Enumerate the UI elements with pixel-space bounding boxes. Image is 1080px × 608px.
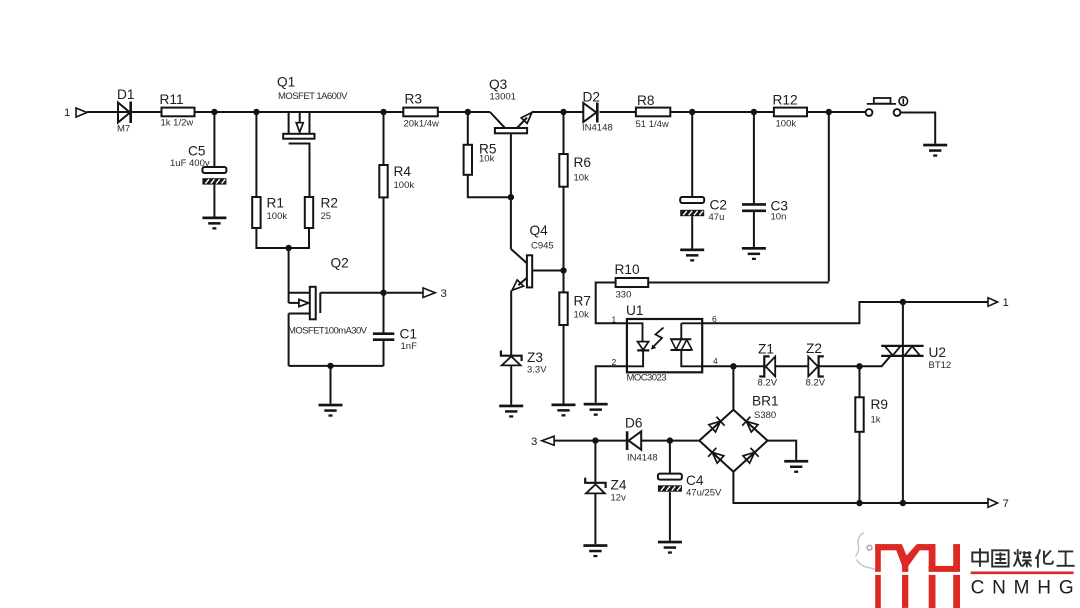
transistor Q4 [511,197,532,356]
logo chinese characters drawn [972,548,1074,567]
svg-text:Z2: Z2 [806,341,822,356]
zener Z2 [808,356,824,376]
svg-text:330: 330 [616,290,632,301]
svg-text:10k: 10k [479,154,495,165]
svg-text:IN4148: IN4148 [582,123,613,134]
svg-text:1k 1/2w: 1k 1/2w [161,118,194,129]
svg-text:C5: C5 [188,144,206,159]
node: bridge top junction on pin4 wire [730,363,736,369]
svg-text:25: 25 [321,211,332,222]
wire: U1 pin2 to ground [596,366,627,403]
logo white gap band [868,572,962,575]
port arrow 7 right [988,499,998,508]
U1 internal triac [671,323,703,366]
wire: R5 bottom to Q3 base node [468,175,511,197]
node: junction C3 [751,109,757,115]
wire: R9 bottom to bottom rail [859,432,861,503]
node: C4 junction [667,437,673,443]
diode D6 [627,431,641,450]
node: R1/R2 bottom junction to Q2 gate [285,245,291,251]
capacitor C2 [691,112,693,197]
svg-text:C2: C2 [710,198,728,213]
node: Q2 drain / C1 junction [380,290,386,296]
resistor R10 [616,278,649,287]
svg-text:Z3: Z3 [527,350,543,365]
svg-text:BT12: BT12 [929,360,952,371]
svg-text:S380: S380 [754,410,776,421]
wire: bridge top to pin4 node [732,366,734,409]
wire: Q2 source / C1 bottom rail [289,365,384,367]
zener Z3 [501,351,522,405]
node: junction R3/R5 [465,109,471,115]
logo red underline [971,572,1074,575]
svg-text:MOSFET100mA30V: MOSFET100mA30V [288,326,368,337]
resistor R9 [859,366,861,397]
wire: U1 pin4 to Z1 [702,365,764,367]
svg-text:R2: R2 [321,196,339,211]
node: junction C2 [689,109,695,115]
svg-text:R7: R7 [574,294,592,309]
svg-text:R12: R12 [773,93,798,108]
svg-text:BR1: BR1 [752,394,779,409]
wire: R12 to switch [807,111,866,113]
svg-text:3: 3 [531,436,537,448]
resistor R8 [636,108,670,117]
port arrow 1 right [988,298,998,307]
svg-text:100k: 100k [267,211,288,222]
svg-text:Q1: Q1 [277,75,295,90]
wire: U1 pin6 to output 1 [702,302,987,323]
svg-text:13001: 13001 [490,92,516,103]
svg-text:1: 1 [1003,297,1009,309]
ground under Q2 [319,404,343,417]
resistor R6 [559,154,567,187]
node: junction R11/C5 [211,109,217,115]
wire: R7 bottom to ground [563,325,565,404]
wire: bridge right to ground [768,441,797,460]
svg-text:1: 1 [64,107,70,119]
wire: R8 to R12 through C2 C3 nodes [670,111,774,113]
node: Q3 base junction [508,194,514,200]
svg-text:3: 3 [441,288,447,300]
ground under C3 [742,247,766,260]
capacitor C5 [202,167,226,173]
svg-text:100k: 100k [776,119,797,130]
svg-text:8.2V: 8.2V [806,378,826,389]
resistor R3 [403,108,438,117]
ground under C4 [658,541,682,554]
svg-text:D6: D6 [625,416,643,431]
diode D1 [118,102,131,124]
bridge rectifier BR1 [699,410,767,472]
wire: R10 left to U1 pin1 [596,283,627,324]
wire: R4 bottom to Q2 drain node [383,197,385,292]
svg-text:R1: R1 [267,196,285,211]
svg-text:Q3: Q3 [489,77,508,92]
input port arrow 1 [76,108,87,117]
svg-text:3.3V: 3.3V [527,365,547,376]
wire: drop to ground [330,366,332,404]
wire: R6 bottom to Q4 base node [563,187,565,271]
wire: top rail input to Q3 collector [87,111,490,113]
svg-text:Z4: Z4 [611,478,627,493]
capacitor C3 [742,112,766,247]
svg-text:8.2V: 8.2V [758,378,778,389]
U1 internal light arrow [653,328,664,348]
resistor R2 [305,197,313,228]
ground under R7 [552,404,576,417]
wire: Z1 to Z2 [775,365,808,367]
wire: drop from top rail to R10 line [828,112,830,281]
wire: junction to arrow 3 [387,292,424,294]
svg-text:C945: C945 [531,241,554,252]
node: junction R1 branch [253,109,259,115]
mosfet Q1 [283,112,314,197]
wire: R5 branch [467,112,469,145]
svg-text:10k: 10k [574,173,590,184]
ground under Z3 [499,405,523,418]
diode D2 [583,103,597,123]
node: bottom rail ground junction [327,363,333,369]
svg-text:47u: 47u [709,212,725,223]
svg-text:MOSFET 1A600V: MOSFET 1A600V [278,91,348,102]
svg-text:R8: R8 [637,93,655,108]
svg-text:D2: D2 [583,90,601,105]
svg-text:51 1/4w: 51 1/4w [636,119,669,130]
svg-text:U1: U1 [626,303,644,318]
svg-text:12v: 12v [611,493,627,504]
logo red letters MYH [875,544,960,608]
logo sketch curls [856,533,878,572]
node: R9 / gate junction [856,363,862,369]
svg-text:Q2: Q2 [331,256,349,271]
zener Z4 [585,441,605,545]
node: junction R12 / feedback drop [826,109,832,115]
node: Z4 junction [592,437,598,443]
port arrow 3 right [423,288,435,298]
svg-text:R10: R10 [615,262,640,277]
node: R9 bottom junction [856,500,862,506]
svg-text:R3: R3 [405,92,423,107]
ground under C2 [680,249,704,262]
wire: bridge bottom to rail 7 [733,472,987,503]
wire: R10 right to top rail drop [648,282,829,284]
node: Q4 base junction [560,267,566,273]
svg-text:R4: R4 [394,164,412,179]
capacitor C4 [669,441,671,474]
svg-text:10n: 10n [771,212,787,223]
wire: switch right contact to ground drop [900,113,935,144]
resistor R5 [464,145,472,175]
U1 internal LED [627,323,649,366]
svg-text:10k: 10k [574,310,590,321]
svg-text:1nF: 1nF [401,341,418,352]
ground under C5 [202,217,226,230]
zener Z1 [759,356,775,376]
svg-text:M7: M7 [117,124,130,135]
svg-text:R9: R9 [871,397,889,412]
svg-text:R6: R6 [574,155,592,170]
svg-text:1uF 400v: 1uF 400v [170,158,210,169]
ground under U1 pin2 [584,403,608,416]
svg-text:100k: 100k [394,180,415,191]
wire: C5 branch [213,112,215,167]
triac U2 [881,302,923,503]
svg-text:R11: R11 [160,92,184,107]
port arrow 3 left [542,436,554,445]
svg-text:C1: C1 [400,327,418,342]
node: U2 bottom junction [900,500,906,506]
svg-text:47u/25V: 47u/25V [686,488,722,499]
svg-text:MOC3023: MOC3023 [627,373,667,384]
svg-text:U2: U2 [929,345,947,360]
svg-text:4: 4 [713,356,718,366]
wire: arrow 3 to D6 [554,440,626,442]
wire: Z2 to R9/U2 gate node [819,365,860,367]
wire: Q4 base to R6/R7 node [532,270,563,272]
wire: D2 cathode to R8 [600,111,636,113]
wire: D6 to bridge left [641,440,699,442]
resistor R1 [252,197,260,228]
optocoupler U1 box [627,319,702,372]
svg-text:1: 1 [612,315,617,325]
svg-text:Q4: Q4 [530,223,549,238]
transistor Q3 [490,112,532,197]
resistor R4 [379,165,387,197]
resistor R12 [774,108,807,117]
svg-text:1k: 1k [871,415,881,426]
wire: R6 branch top [563,112,565,154]
wire: top rail Q3 emitter to D2 anode [532,111,584,113]
resistor R11 [162,108,195,117]
svg-text:20k1/4w: 20k1/4w [404,119,440,130]
ground at bridge right [784,460,808,473]
svg-text:7: 7 [1003,498,1009,510]
svg-text:C4: C4 [686,473,704,488]
svg-text:IN4148: IN4148 [627,453,658,464]
wire: gate lead into U2 [860,356,891,366]
svg-text:Z1: Z1 [758,342,774,357]
ground under Z4 [583,544,607,557]
svg-text:D1: D1 [117,87,135,102]
wire: R4 branch top [383,112,385,165]
resistor R7 [563,271,565,293]
node: U2 top junction [900,299,906,305]
ground at switch [923,144,947,157]
wire: R1 branch [255,112,257,197]
mosfet Q2 [289,248,384,366]
wire: R1 R2 bottoms joined [256,228,309,248]
node: junction R6/D2 [560,109,566,115]
capacitor C1 [373,293,394,366]
switch S1 pushbutton [866,97,908,116]
node: junction R3/R4 [380,109,386,115]
